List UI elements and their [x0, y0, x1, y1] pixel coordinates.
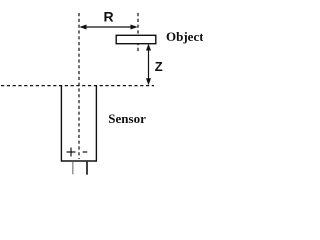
svg-text:Sensor: Sensor [108, 111, 146, 126]
svg-text:Z: Z [155, 59, 163, 74]
sensor box (open at top where dashed reference line crosses) [61, 86, 96, 161]
object rectangle [116, 35, 156, 43]
dimension arrow R (horizontal double arrow) [79, 25, 137, 30]
svg-text:R: R [104, 9, 114, 25]
plus terminal symbol [67, 148, 76, 157]
reference plane dashed line (horizontal, y=85.6) [1, 85, 154, 87]
svg-text:Object: Object [166, 29, 203, 44]
sensor axis dashed centerline (vertical, x=79) [78, 13, 80, 159]
object axis dashed centerline (vertical, x=138) [137, 13, 139, 53]
left lead (gray) [72, 162, 74, 175]
sensor/object geometry diagram [0, 0, 203, 176]
dimension arrow Z (vertical double arrow) [146, 44, 151, 86]
right lead (black) [86, 162, 88, 175]
minus terminal symbol [83, 151, 88, 153]
